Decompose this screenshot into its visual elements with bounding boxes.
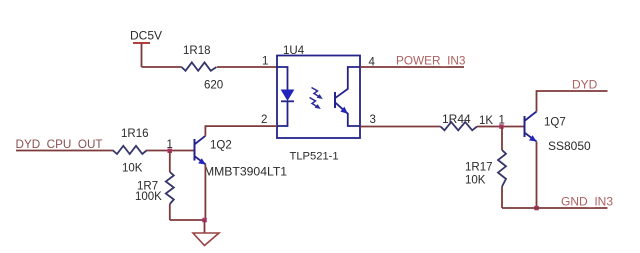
- wire R18 to pin1 of U4: [217, 66, 277, 68]
- svg-text:1Q2: 1Q2: [210, 140, 232, 152]
- wire Q7 collector to DYD: [537, 91, 608, 112]
- svg-text:1U4: 1U4: [283, 45, 305, 57]
- wire R44 to Q7 base: [477, 126, 525, 128]
- svg-text:1: 1: [262, 56, 268, 68]
- wire Q7 emitter down: [536, 142, 538, 209]
- svg-text:1R17: 1R17: [465, 162, 493, 174]
- ground: [193, 233, 219, 246]
- svg-text:1Q7: 1Q7: [544, 117, 566, 129]
- junction at Q7 base node: [499, 124, 504, 129]
- resistor R44: [441, 112, 494, 130]
- svg-text:1R18: 1R18: [183, 45, 211, 57]
- wire R7 bottom to emitter junction: [170, 219, 205, 221]
- svg-text:100K: 100K: [135, 191, 162, 203]
- wire pin4 to POWER_IN3: [360, 66, 464, 68]
- svg-text:MMBT3904LT1: MMBT3904LT1: [204, 165, 287, 179]
- svg-text:SS8050: SS8050: [548, 139, 591, 153]
- svg-text:POWER_IN3: POWER_IN3: [396, 54, 466, 68]
- phototransistor inside optocoupler: [335, 67, 360, 126]
- svg-text:620: 620: [204, 80, 223, 92]
- svg-text:1R16: 1R16: [121, 128, 149, 140]
- svg-text:10K: 10K: [465, 175, 486, 187]
- junction at Q2 base node: [168, 149, 173, 154]
- svg-text:GND_IN3: GND_IN3: [561, 195, 613, 209]
- resistor R17 (vertical): [465, 127, 506, 209]
- svg-text:2: 2: [261, 114, 267, 126]
- light arrows: [310, 88, 323, 110]
- svg-text:DC5V: DC5V: [130, 29, 162, 43]
- wire junction to ground: [204, 220, 206, 233]
- LED inside optocoupler: [277, 67, 294, 126]
- svg-text:3: 3: [370, 114, 376, 126]
- junction at ground node: [202, 218, 207, 223]
- svg-text:DYD: DYD: [572, 78, 598, 92]
- svg-text:TLP521-1: TLP521-1: [290, 151, 339, 163]
- svg-text:1: 1: [499, 115, 505, 127]
- wire power to R18: [142, 66, 182, 68]
- transistor Q2: [195, 136, 288, 179]
- optocoupler U4 box: [277, 45, 360, 138]
- wire Q2 emitter down: [204, 165, 206, 221]
- wire pin3 of U4 to R44: [360, 126, 441, 128]
- wire Q2 collector to pin2 of U4: [205, 126, 277, 136]
- resistor R7 (vertical): [135, 151, 174, 221]
- wire GND_IN3: [502, 207, 608, 209]
- power symbol DC5V: [130, 29, 162, 68]
- resistor R16: [113, 128, 149, 175]
- resistor R18: [182, 45, 224, 92]
- svg-text:1: 1: [167, 139, 173, 151]
- wire DYD_CPU_OUT to R16: [16, 150, 114, 152]
- wire R16 to Q2 base: [146, 150, 195, 152]
- svg-text:1R44: 1R44: [442, 112, 471, 126]
- junction at emitter/GND node: [534, 206, 539, 211]
- transistor Q7: [525, 112, 592, 154]
- svg-text:DYD_CPU_OUT: DYD_CPU_OUT: [16, 138, 103, 151]
- svg-text:1K: 1K: [479, 115, 493, 127]
- svg-text:10K: 10K: [122, 163, 143, 175]
